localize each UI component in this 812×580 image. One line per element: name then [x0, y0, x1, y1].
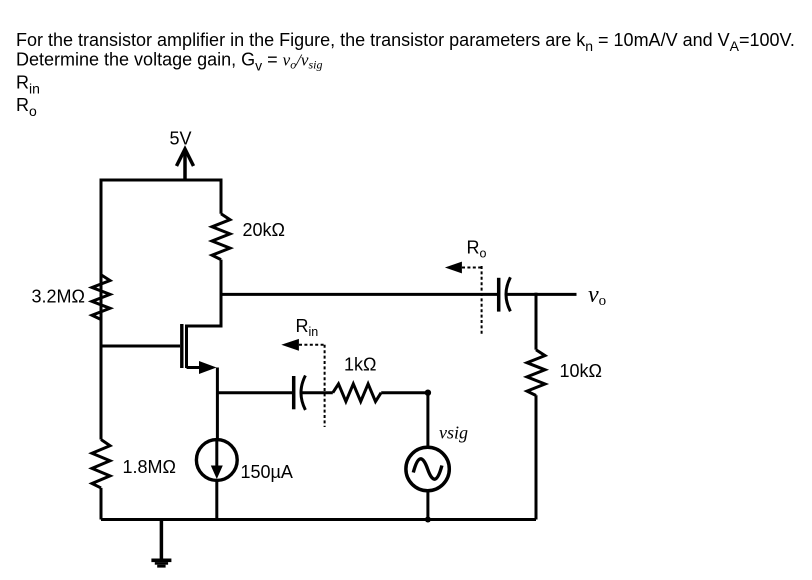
capacitor C1 flat plate — [292, 376, 296, 409]
current source I1 arrow shaft — [215, 441, 218, 469]
5V supply arrow — [183, 150, 187, 180]
current source I1 circle — [196, 440, 237, 481]
wire 10k to rail — [535, 395, 538, 519]
wire drain — [187, 260, 222, 326]
wire cap to 1k — [303, 391, 333, 394]
wire gate — [101, 345, 180, 348]
resistor 1.8M zigzag — [92, 440, 110, 488]
svg-text:Ro: Ro — [467, 238, 487, 261]
wire vsig branch top — [426, 393, 429, 446]
wire left rail middle — [100, 320, 103, 440]
transistor Q1 source arrow — [199, 361, 217, 374]
wire input — [217, 391, 292, 394]
ground symbol bars — [151, 559, 171, 563]
svg-text:vo: vo — [588, 282, 606, 309]
resistor 1k zigzag — [333, 384, 381, 402]
transistor Q1 gate bar — [180, 324, 183, 368]
ground stem — [160, 520, 164, 559]
svg-text:vsig: vsig — [439, 423, 468, 443]
svg-text:5V: 5V — [170, 129, 192, 149]
capacitor C2 curved plate — [506, 277, 510, 311]
svg-text:10kΩ: 10kΩ — [560, 361, 602, 381]
wire top rail — [101, 180, 221, 320]
resistor 10k zigzag — [527, 350, 545, 396]
wire left rail bottom — [100, 488, 103, 520]
wire 1k to vsig — [381, 391, 428, 394]
svg-text:Rin: Rin — [296, 316, 319, 339]
capacitor C1 curved plate — [301, 376, 305, 410]
svg-text:20kΩ: 20kΩ — [243, 220, 285, 240]
wire output node — [221, 294, 497, 326]
resistor 3.2M zigzag — [92, 275, 110, 320]
svg-text:1.8MΩ: 1.8MΩ — [123, 457, 176, 477]
svg-text:Determine the voltage gain, Gv: Determine the voltage gain, Gv = vo/vsig — [16, 50, 323, 74]
transistor Q1 channel bar — [185, 325, 188, 369]
Rin arrow head — [281, 339, 299, 351]
Rin dashed probe lines — [299, 345, 325, 427]
junction dot vsig rail — [425, 517, 431, 523]
Ro dashed probe lines — [462, 266, 482, 336]
current source I1 arrow head — [211, 466, 223, 480]
transistor Q1 source wire — [187, 366, 203, 369]
wire source vertical — [216, 368, 219, 439]
wire vsig to rail — [426, 492, 429, 520]
svg-text:Ro: Ro — [16, 95, 37, 119]
Ro arrow head — [445, 262, 462, 274]
capacitor C2 flat plate — [497, 278, 501, 312]
svg-text:3.2MΩ: 3.2MΩ — [32, 287, 85, 307]
source VSIG sine — [413, 459, 442, 479]
wire output to vo — [508, 293, 577, 296]
resistor 20k zigzag — [212, 214, 230, 260]
svg-text:1kΩ: 1kΩ — [344, 355, 376, 375]
wire bottom rail — [101, 518, 536, 521]
junction dot input corner — [425, 390, 431, 396]
wire 10k branch — [535, 293, 538, 350]
source VSIG circle — [406, 447, 449, 490]
svg-text:150µA: 150µA — [241, 462, 293, 482]
wire current source to rail — [215, 482, 218, 520]
svg-text:Rin: Rin — [16, 73, 40, 97]
